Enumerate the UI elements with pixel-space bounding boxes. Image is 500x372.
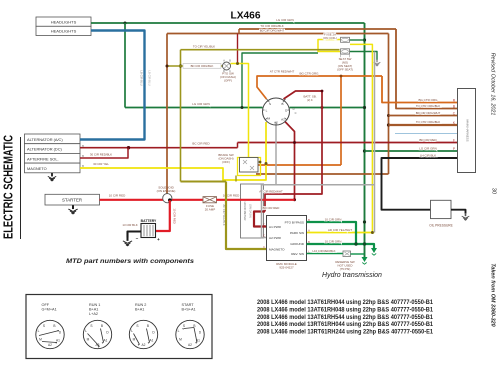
junction olive / pto feed	[179, 64, 182, 67]
svg-text:AFTERFIRE SOL.: AFTERFIRE SOL.	[27, 156, 59, 161]
key switch circle	[263, 98, 290, 125]
svg-text:C: C	[263, 246, 265, 249]
junction pto feed / solenoid wire	[166, 65, 169, 68]
svg-text:(OFF): (OFF)	[222, 160, 230, 164]
key switch terminal ticks	[267, 100, 270, 103]
wire orange BG CTR ORG from key switch S	[257, 76, 382, 99]
junction pin K	[387, 123, 390, 126]
key position START	[176, 320, 204, 348]
svg-text:RUN 2: RUN 2	[135, 303, 146, 307]
svg-text:A1: A1	[56, 339, 60, 343]
wire gray long vertical	[374, 52, 376, 233]
svg-text:BD CIR RED: BD CIR RED	[419, 138, 437, 142]
junction B wire / D wire crossing	[321, 90, 324, 93]
seat switch symbol	[341, 49, 350, 54]
svg-text:L: L	[38, 329, 40, 333]
svg-text:HEADLIGHTS: HEADLIGHTS	[51, 29, 77, 34]
svg-text:B: B	[147, 324, 149, 328]
svg-text:BC CIR RED: BC CIR RED	[192, 142, 210, 146]
svg-text:A2: A2	[142, 343, 146, 347]
junction green vertical / ground line	[363, 242, 366, 245]
svg-text:(75 PSI): (75 PSI)	[340, 267, 351, 271]
svg-text:GROUND: GROUND	[290, 242, 305, 246]
svg-text:L: L	[85, 329, 87, 333]
svg-text:LG CIR GRN: LG CIR GRN	[276, 18, 294, 22]
svg-text:LH CIR BLK: LH CIR BLK	[420, 153, 436, 157]
svg-text:PTO BYPASS: PTO BYPASS	[285, 221, 304, 225]
svg-text:A1 PWR: A1 PWR	[269, 225, 282, 229]
svg-text:10 CIR GRN: 10 CIR GRN	[325, 217, 342, 221]
ground of seat switch	[374, 60, 381, 66]
svg-text:Revised October 16, 2021: Revised October 16, 2021	[490, 53, 496, 116]
svg-text:BATTERY: BATTERY	[141, 219, 157, 223]
svg-text:BD CIR RED: BD CIR RED	[263, 206, 280, 210]
wire green fuse output	[350, 39, 365, 41]
wire brown right vertical	[388, 34, 390, 175]
svg-text:S: S	[43, 324, 45, 328]
wire blue headlights to alternator AC	[80, 31, 145, 140]
svg-text:MAGNETO: MAGNETO	[27, 166, 47, 171]
svg-text:ALTERNATOR (DC): ALTERNATOR (DC)	[27, 147, 63, 152]
brake switch box	[240, 158, 259, 173]
svg-text:10 CIR RED: 10 CIR RED	[173, 208, 177, 223]
junction afterfire	[127, 146, 130, 149]
junction green/L wire	[241, 106, 244, 109]
wire brown jog up	[238, 29, 240, 34]
svg-text:2008 LX466 model 13AT61RH544 u: 2008 LX466 model 13AT61RH544 using 22hp …	[257, 315, 434, 321]
wire green vertical to key switch L	[124, 23, 126, 108]
svg-text:2008 LX466 model 13AT61RH044 u: 2008 LX466 model 13AT61RH044 using 22hp …	[257, 300, 434, 306]
svg-text:M: M	[39, 338, 42, 342]
wire green to connector pin P	[365, 150, 460, 152]
svg-text:REV. SW: REV. SW	[291, 252, 304, 256]
wire red starter 10 CIR RED	[100, 199, 204, 201]
svg-text:BATT. SB.: BATT. SB.	[303, 95, 316, 99]
wire brown upper horizontal TO CIR ORG/BLK	[239, 28, 396, 30]
svg-text:B: B	[53, 324, 55, 328]
svg-text:LB CIR BLU: LB CIR BLU	[140, 70, 144, 85]
svg-text:LG CIR GRN: LG CIR GRN	[419, 147, 437, 151]
svg-text:Hydro transmission: Hydro transmission	[322, 272, 382, 279]
wire dark red vertical at PTO junction	[237, 34, 239, 64]
wire olive pto feed	[167, 65, 223, 67]
junction on green wire	[124, 22, 127, 25]
wire brown top horizontal	[167, 33, 389, 35]
wire brown solenoid vertical	[166, 34, 168, 194]
wire thin light blue to connector	[395, 133, 459, 135]
junction green vertical / pto bypass	[363, 220, 366, 223]
wire red fuse to key switch A1 junction 16 CIR RED	[217, 199, 295, 201]
svg-text:+: +	[157, 237, 160, 242]
wire yellow right vertical to park switch	[350, 44, 372, 232]
svg-text:STARTER: STARTER	[62, 198, 82, 203]
junction A1 wire / starter line	[293, 198, 296, 201]
key position RUN 2	[129, 320, 157, 348]
wire green main vertical	[364, 23, 366, 257]
fuse 20A symbol	[203, 197, 217, 203]
svg-text:AT CIR RED/WHT: AT CIR RED/WHT	[259, 190, 283, 194]
wire green rev sw to green vertical	[351, 253, 365, 255]
ground below magneto box	[48, 173, 56, 181]
ground battery	[123, 237, 132, 246]
fuse 2A symbol	[341, 37, 350, 42]
headlights box 2	[36, 26, 91, 35]
svg-text:C: C	[295, 111, 297, 115]
wire dark red key switch B AT CTR RED/WHT	[265, 91, 322, 212]
svg-text:HEADLIGHTS: HEADLIGHTS	[51, 20, 77, 25]
svg-text:D: D	[293, 107, 295, 111]
junction yellow park	[371, 231, 374, 234]
hour meter box	[241, 184, 264, 238]
junction yellow / orange crossing	[265, 162, 268, 165]
wire green lower-left run to seat area	[242, 53, 318, 108]
wire green to key switch terminal L	[125, 107, 263, 109]
svg-text:B: B	[101, 324, 103, 328]
svg-text:A1: A1	[150, 339, 154, 343]
svg-text:BG CTR ORG: BG CTR ORG	[299, 72, 319, 76]
svg-text:13 CIR BLK: 13 CIR BLK	[122, 223, 137, 227]
alternator (A/C) box	[25, 134, 81, 144]
svg-text:BD CIR ORG/BLK: BD CIR ORG/BLK	[191, 64, 214, 68]
svg-text:20 AMP: 20 AMP	[205, 207, 216, 211]
wire olive vertical to module magneto	[226, 182, 267, 250]
RMC module box	[267, 216, 307, 261]
svg-text:MTD part numbers with componen: MTD part numbers with components	[66, 258, 195, 265]
svg-text:B+S+A1: B+S+A1	[182, 308, 196, 312]
svg-text:HOUR METER: HOUR METER	[243, 202, 247, 221]
starter box	[45, 194, 100, 205]
svg-text:ELECTRIC SCHEMATIC: ELECTRIC SCHEMATIC	[1, 135, 16, 239]
svg-text:30: 30	[491, 188, 497, 194]
PTO switch circle	[223, 62, 231, 70]
svg-text:L+A2: L+A2	[89, 312, 98, 316]
wire black battery negative 16 CIR BLK	[128, 232, 142, 238]
junction A1 wire / pin F wire	[293, 141, 296, 144]
svg-text:C: C	[263, 235, 265, 238]
svg-text:TO CTR ORG/BLK: TO CTR ORG/BLK	[416, 120, 440, 124]
junction green vertical / pin P wire	[363, 149, 366, 152]
wire green module GROUND 10 CIR GRN	[307, 244, 375, 248]
wire green seat switch to ground	[350, 52, 378, 61]
svg-text:(OFF): (OFF)	[224, 79, 232, 83]
battery	[141, 224, 156, 238]
wire orange to connector pin R	[382, 76, 459, 103]
label plate on pto feed wire	[183, 64, 221, 69]
svg-text:(ON ENGINE): (ON ENGINE)	[157, 189, 176, 193]
junction yellow pto	[236, 62, 239, 65]
svg-text:2008 LX466 model 13RT61RH044 u: 2008 LX466 model 13RT61RH044 using 22hp …	[257, 322, 434, 328]
svg-text:TO CIR YEL/BLK: TO CIR YEL/BLK	[193, 44, 215, 48]
svg-text:B+A1: B+A1	[135, 308, 144, 312]
svg-text:AD CIR YEL/WHT: AD CIR YEL/WHT	[328, 228, 352, 232]
svg-text:OIL PRESSURE: OIL PRESSURE	[429, 224, 452, 228]
junction green vertical / fuse	[363, 38, 366, 41]
ground arrow module ground wire	[371, 248, 377, 253]
wire gray key switch A2 down	[275, 125, 277, 185]
wire yellow PTO switch output	[231, 64, 249, 158]
wire gray right run	[276, 184, 375, 186]
wire gray to module A2 PWR	[262, 185, 277, 238]
svg-text:AF CIR YEL/BLK: AF CIR YEL/BLK	[222, 204, 226, 225]
svg-text:S: S	[136, 324, 138, 328]
svg-text:MAGNETO: MAGNETO	[269, 248, 285, 252]
svg-text:LG CIR GRN: LG CIR GRN	[192, 102, 210, 106]
magneto box	[25, 163, 81, 173]
junction pin C	[387, 114, 390, 117]
wire olive lower horizontal	[181, 181, 227, 183]
svg-text:2008 LX466 model 13RT61RH244 u: 2008 LX466 model 13RT61RH244 using 22hp …	[257, 330, 434, 336]
olive stub brake box	[235, 176, 237, 182]
svg-text:(2) F.: (2) F.	[307, 98, 313, 102]
svg-text:10 CIR GRN: 10 CIR GRN	[325, 239, 342, 243]
svg-text:F: F	[453, 139, 455, 143]
wire dark red thick to module A1 PWR BD CIR RED	[254, 212, 267, 227]
svg-text:M: M	[179, 338, 182, 342]
wire orange vertical at brake switch	[340, 76, 342, 165]
wire brown to connector pin C	[389, 115, 460, 117]
svg-text:−: −	[136, 236, 139, 241]
svg-text:AT CTR RED/WHT: AT CTR RED/WHT	[270, 70, 295, 74]
junction brake yellow	[259, 161, 262, 164]
junction pto bypass / ground	[354, 242, 357, 245]
svg-text:M: M	[133, 338, 136, 342]
svg-text:30 CIR RED/BLK: 30 CIR RED/BLK	[90, 152, 112, 156]
wire brown bottom horizontal to brake switch	[256, 173, 389, 175]
svg-text:G=M+A1: G=M+A1	[42, 308, 57, 312]
wire black oil pressure to ground	[451, 210, 466, 214]
connector box right	[458, 89, 476, 173]
svg-text:A2: A2	[188, 343, 192, 347]
svg-text:Taken from OM 3360-320: Taken from OM 3360-320	[490, 263, 496, 326]
junction dot D wire	[321, 106, 324, 109]
svg-text:M: M	[87, 338, 90, 342]
wire dark red afterfire solenoid	[80, 148, 128, 158]
wire green from key switch terminal D	[290, 107, 365, 109]
svg-text:START: START	[182, 303, 195, 307]
wire black connector to oil pressure	[382, 158, 460, 210]
svg-text:(ON COIL): (ON COIL)	[323, 36, 337, 40]
junction green vertical / D wire	[363, 106, 366, 109]
wire green module PTO BYPASS 10 CIR GRN	[307, 222, 357, 244]
svg-text:(OFF SEAT): (OFF SEAT)	[337, 67, 353, 71]
yellow outline around brake switch	[238, 158, 261, 176]
oil pressure switch box	[431, 200, 452, 218]
svg-text:B: B	[453, 105, 455, 109]
svg-text:C: C	[263, 224, 265, 227]
svg-text:L10 CIR RED/BLK: L10 CIR RED/BLK	[312, 249, 335, 253]
svg-text:BD CIR ORG/WHT: BD CIR ORG/WHT	[260, 29, 285, 33]
svg-text:(ON DASH): (ON DASH)	[249, 204, 253, 218]
ground oil pressure	[462, 213, 470, 220]
svg-text:A2 PWR: A2 PWR	[269, 236, 282, 240]
svg-text:LB CIR BLU: LB CIR BLU	[148, 70, 152, 85]
wire olive TO CIR YEL/BLK top	[181, 49, 340, 51]
svg-text:L: L	[131, 329, 133, 333]
svg-text:30 CIR YEL: 30 CIR YEL	[93, 162, 109, 166]
wire orange brake switch to vertical	[258, 164, 341, 166]
svg-text:RUN 1: RUN 1	[89, 303, 100, 307]
wire red solenoid to battery	[156, 200, 170, 231]
svg-text:A1: A1	[104, 339, 108, 343]
svg-text:10 CIR RED: 10 CIR RED	[109, 194, 126, 198]
key position RUN 1	[83, 320, 111, 348]
reverse switch connector	[343, 251, 351, 257]
wire green module REV SW	[307, 253, 344, 255]
svg-text:BD CIR ORG/WHT: BD CIR ORG/WHT	[416, 111, 441, 115]
svg-text:L: L	[178, 329, 180, 333]
headlights box 1	[36, 17, 91, 26]
wire yellow module PARK SW AD CIR YEL/WHT	[307, 232, 375, 234]
junction solenoid / battery wire	[168, 198, 172, 202]
svg-text:S: S	[90, 324, 92, 328]
wire dark red jog to pin F level	[237, 143, 239, 148]
wire dark red to connector pin F BD CIR RED	[238, 142, 460, 144]
svg-text:2008 LX466 model 13AT61RH048 u: 2008 LX466 model 13AT61RH048 using 22hp …	[257, 307, 434, 313]
ground arrow at bottom of green vertical	[362, 257, 368, 262]
svg-text:OFF: OFF	[42, 303, 50, 307]
svg-text:B+A1: B+A1	[89, 308, 98, 312]
svg-text:PARK SW: PARK SW	[290, 231, 304, 235]
wire green headlight feed LG CIR GRN (top)	[91, 22, 365, 24]
alternator (DC) box	[25, 144, 81, 154]
svg-text:TO CIR ORG/BLK: TO CIR ORG/BLK	[260, 24, 283, 28]
svg-text:TO CTR ORG/BLK: TO CTR ORG/BLK	[416, 104, 440, 108]
ground below starter	[68, 205, 77, 214]
svg-text:MAIN HARNESS: MAIN HARNESS	[466, 119, 470, 141]
svg-text:P: P	[453, 147, 455, 151]
svg-text:925-04227: 925-04227	[279, 265, 294, 269]
wire olive vertical left	[180, 50, 182, 182]
key positions box	[26, 295, 212, 359]
afterfire solenoid box	[25, 153, 81, 163]
wire brown thick to connector pin K	[389, 124, 460, 126]
wire yellow magneto 30 CIR YEL	[80, 122, 266, 180]
wire dark red key switch A1 to battery line	[284, 120, 295, 200]
svg-text:S: S	[183, 324, 185, 328]
svg-text:LX466: LX466	[230, 10, 260, 21]
key position OFF	[36, 320, 64, 348]
solenoid circle on engine	[163, 194, 172, 203]
svg-text:A2: A2	[48, 343, 52, 347]
wire yellow seat fuse loop	[318, 40, 341, 52]
svg-text:B: B	[281, 102, 283, 106]
svg-text:ALTERNATOR (A/C): ALTERNATOR (A/C)	[27, 137, 63, 142]
wire brown to connector pin B	[396, 29, 459, 109]
wire dark red alternator DC BC CIR RED	[80, 147, 238, 149]
svg-text:BG CTR ORG: BG CTR ORG	[418, 98, 438, 102]
